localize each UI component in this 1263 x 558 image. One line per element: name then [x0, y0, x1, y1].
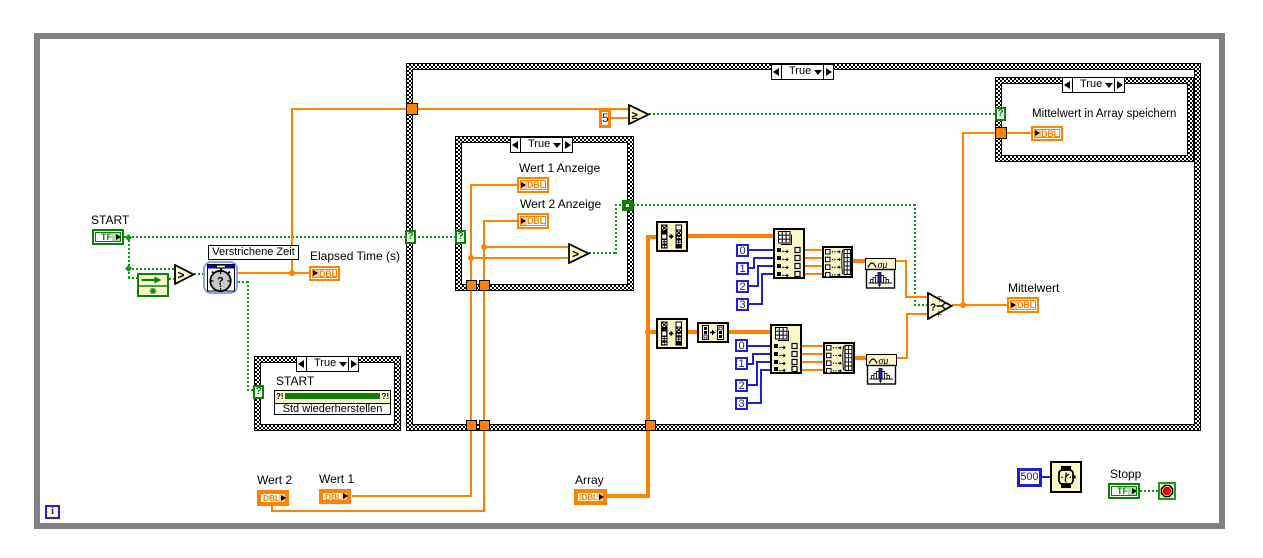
tunnel: orange Wert2 on middle case bottom border: [479, 280, 490, 291]
selector middle case "True": [510, 137, 573, 153]
numeric constants 0-3 (lower group): [735, 339, 748, 352]
numeric constant 5 (orange): [599, 109, 611, 128]
wire: green dotted GT2 up: [615, 204, 617, 254]
boolean control Stopp (TF): [1108, 483, 1140, 499]
wire: green dotted GT2 out: [589, 252, 617, 254]
wire: orange stats1 out: [896, 260, 907, 262]
wire: blue const3 to index1: [749, 303, 763, 305]
tunnel: orange on big case left border: [406, 103, 418, 115]
wire: orange trunk to Wert2 Anzeige: [483, 220, 517, 222]
select node: [927, 292, 953, 320]
wire: green dotted GEQ out to top-right case: [649, 113, 996, 115]
wire: green dotted Stopp to loop condition: [1140, 490, 1159, 492]
invoke node START / Std wiederherstellen: [274, 390, 391, 415]
numeric constants 0-3 (upper group): [736, 244, 749, 257]
wire: orange vertical up to top-right case: [962, 132, 964, 304]
wire: green dotted vertical down to bottom-left case: [247, 281, 249, 391]
tunnel: green boolean on middle case right border: [622, 200, 633, 211]
label Mittelwert in Array speichern: [1032, 108, 1176, 120]
case structure bottom-left (True): [254, 356, 401, 431]
selector bottom-left case "True": [296, 356, 359, 372]
wire: orange stats2 out: [897, 357, 908, 359]
feedback node: [137, 273, 169, 297]
wire: orange index2 outputs to build2: [802, 345, 823, 347]
wire: orange thick build1 to stats1: [853, 259, 865, 263]
wire: green dotted into select s: [914, 304, 927, 306]
svg-text:σμ: σμ: [879, 356, 889, 367]
index array node (lower): [770, 324, 802, 374]
svg-text:F: F: [938, 312, 942, 319]
node: orange junction Wert2 trunk: [481, 244, 487, 250]
wire: blue const0b to index2: [748, 345, 770, 347]
wire: orange tunnel to GEQ node: [418, 108, 628, 110]
node: orange junction on elapsed wire: [289, 270, 295, 276]
tunnel: orange Array on big case bottom border: [645, 420, 656, 431]
wire: orange thick Array ctl to trunk: [607, 494, 650, 498]
wire: green dotted into feedback node: [128, 277, 137, 279]
wire: orange elapsed VI out to Elapsed DBL: [238, 272, 309, 274]
wire: green dotted down to select s input: [914, 204, 916, 305]
case structure top-right (True): [995, 77, 1194, 162]
node: orange junction Wert1 trunk: [468, 255, 474, 261]
wire: orange Wert1 vertical trunk: [470, 184, 472, 496]
build array node (upper): [822, 246, 853, 278]
wire: blue 500 to wait: [1042, 476, 1050, 478]
tunnel: orange Wert2 on big case bottom border: [479, 420, 490, 431]
wire: green dotted vertical from START junction: [128, 236, 130, 279]
wire: orange into top-right tunnel: [962, 132, 996, 134]
indicator Mittelwert DBL: [1007, 297, 1039, 313]
wire: orange thick Array trunk: [646, 235, 650, 496]
wire: orange trunk junction to GT2 lower input: [470, 257, 568, 259]
wire: green dotted into ? tunnel of bottom-left case: [247, 389, 255, 391]
selector top-right case "True": [1062, 77, 1125, 93]
wire: orange thick rotate2 to reverse: [688, 330, 697, 334]
wire: blue const2 to index1: [749, 285, 759, 287]
label Array: [575, 473, 604, 487]
rotate 1D array node (upper): [656, 221, 688, 252]
wire: green dotted START to big case: [124, 236, 406, 238]
wire: orange tunnel to DBL in top-right case: [1005, 132, 1031, 134]
svg-text:σμ: σμ: [878, 260, 888, 271]
boolean control START (TF): [92, 229, 124, 245]
wire: green dotted GT2 to mid case tunnel: [615, 204, 623, 206]
svg-text:>: >: [572, 247, 579, 261]
wire: orange select out to Mittelwert: [952, 304, 1007, 306]
control Wert 2 DBL: [257, 490, 289, 506]
label START (top left control): [91, 213, 129, 227]
case structure big (True): [406, 63, 1201, 431]
wire: orange Wert2 ctl drop: [271, 504, 273, 512]
case structure middle (True): [455, 136, 634, 291]
indicator DBL in top-right case: [1031, 126, 1063, 141]
node B: green junction diamond lower: [125, 265, 132, 272]
build array node (lower): [823, 342, 855, 374]
comparison node GreaterOrEqual: [628, 104, 650, 125]
wire: blue const1b to index2: [748, 363, 754, 365]
label Wert 1: [319, 472, 354, 486]
selector big case "True": [771, 64, 834, 80]
label Wert 2: [257, 473, 292, 487]
wire: orange trunk junction to GT2 upper input: [483, 246, 568, 248]
numeric constant 500: [1017, 468, 1042, 487]
control Wert 1 DBL: [319, 489, 351, 504]
statistics node (upper): [865, 258, 896, 289]
wire: orange index1 outputs to build1: [805, 249, 822, 251]
label Stopp: [1110, 467, 1141, 481]
node: orange junction select out: [960, 302, 966, 308]
tunnel: orange on top-right case left border: [995, 127, 1007, 139]
wire: blue const0 to index1: [749, 249, 773, 251]
indicator Elapsed Time DBL: [309, 266, 340, 281]
wire: orange thick reverse to index2: [729, 330, 770, 334]
comparison node Greater? Q1: [174, 264, 195, 285]
svg-text:≥: ≥: [632, 110, 638, 122]
wire: green dotted junction to GT top input: [128, 268, 174, 270]
wire: orange vertical up from elapsed junction: [291, 108, 293, 273]
wire: blue const2b to index2: [748, 384, 758, 386]
tunnel: ? on top-right case left border: [995, 107, 1006, 121]
svg-text:T: T: [938, 297, 943, 304]
label Elapsed Time (s): [310, 249, 400, 263]
wire: green dotted inside big case to middle case: [418, 236, 455, 238]
wire: blue const1 to index1: [749, 267, 755, 269]
wire: orange Wert2 ctl to trunk: [271, 510, 485, 512]
svg-text:?: ?: [930, 303, 936, 314]
rotate 1D array node (lower): [656, 318, 688, 349]
wire: orange 5 const to GEQ bottom input: [611, 117, 628, 119]
wire: orange thick rotate1 to index1: [688, 234, 773, 238]
iteration terminal i: [45, 505, 60, 519]
wire: blue const3b to index2: [748, 402, 762, 404]
control Array (DBL array): [574, 489, 607, 505]
tunnel: orange Wert1 on big case bottom border: [466, 420, 477, 431]
wire: orange horizontal into big case tunnel: [291, 108, 406, 110]
wire: orange Wert2 vertical trunk: [483, 220, 485, 511]
wire: green dotted feedback out to GT bottom input: [169, 278, 174, 280]
index array node (upper): [773, 228, 805, 279]
node A: green junction diamond on START wire: [125, 234, 132, 241]
label Mittelwert: [1008, 281, 1059, 295]
wire: green dotted elapsed VI boolean out: [238, 281, 249, 283]
wire: orange Wert1 ctl to trunk: [352, 495, 472, 497]
svg-text:>: >: [178, 268, 185, 282]
indicator Wert 2 Anzeige DBL: [517, 213, 549, 229]
wire: orange trunk to Wert1 Anzeige: [470, 184, 517, 186]
tunnel: orange Wert1 on middle case bottom border: [466, 280, 477, 291]
comparison node Greater? Q2: [568, 243, 590, 264]
wire: green dotted mid tunnel out right: [633, 204, 915, 206]
label Wert 1 Anzeige: [519, 161, 600, 175]
tunnel: ? on middle case left border: [455, 230, 466, 244]
wait (ms) node: [1050, 461, 1082, 493]
label box Verstrichene Zeit: [208, 245, 299, 260]
label Wert 2 Anzeige: [520, 197, 601, 211]
indicator Wert 1 Anzeige DBL: [517, 177, 549, 193]
reverse 1D array node: [697, 322, 729, 343]
loop condition terminal (stop sign): [1158, 482, 1176, 500]
wire: orange thick trunk to rotate1: [646, 235, 656, 239]
node: orange junction array trunk: [645, 329, 651, 335]
wire: green dotted GT out to elapsed VI: [194, 273, 203, 275]
label START (invoke node): [276, 374, 314, 388]
express VI Elapsed Time (stopwatch): [203, 261, 238, 294]
wire: orange thick trunk to rotate2: [646, 330, 656, 334]
wire: orange thick build2 to stats2: [855, 356, 866, 360]
statistics node (lower): [866, 354, 897, 385]
tunnel: ? on big case left border: [405, 230, 416, 244]
tunnel: ? on bottom-left case left border: [253, 385, 264, 399]
